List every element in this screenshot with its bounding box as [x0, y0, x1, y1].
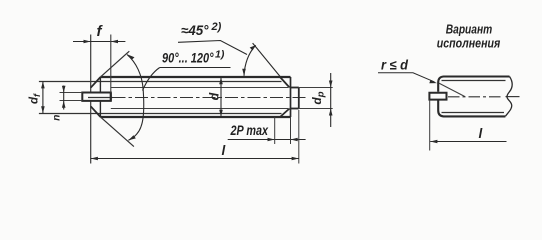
45deg shelf [178, 41, 247, 55]
variant l extension [429, 100, 431, 151]
flat point cylinder bottom [291, 108, 299, 110]
90-120 shelf [160, 67, 231, 69]
variant view body outline [438, 77, 509, 117]
outline OD bottom [100, 116, 290, 118]
d_p extension bottom [299, 108, 333, 110]
svg-text:исполнения: исполнения [437, 36, 501, 50]
90-120 angle arc [127, 55, 144, 141]
right end chamfer thick top [280, 77, 290, 88]
right end body vertical [290, 77, 292, 117]
break line [505, 77, 512, 117]
l dimension line [91, 158, 299, 160]
svg-text:90°... 120°: 90°... 120° [162, 51, 214, 66]
thread minor line top (also d_f extension) [39, 81, 282, 83]
svg-text:n: n [52, 115, 63, 121]
90-120 arc arrows [127, 54, 135, 60]
d_p arrows [329, 81, 333, 88]
n arrows [62, 86, 66, 93]
slot end vertical [110, 93, 112, 101]
d_f dimension line [42, 81, 44, 113]
svg-text:r ≤ d: r ≤ d [381, 58, 409, 73]
chamfer vertical upper [99, 77, 101, 92]
left face line (also f and l extension line) [90, 35, 92, 93]
flat point cylinder top [291, 87, 299, 89]
d_f arrows [41, 81, 45, 88]
45 arc arrows [250, 45, 256, 50]
45deg chamfer ray [253, 43, 281, 77]
r leader shelf [378, 73, 435, 82]
d_p dimension line [330, 73, 332, 127]
axis centerline [88, 97, 113, 99]
right end chamfer thick bottom [280, 109, 290, 118]
svg-text:2): 2) [211, 21, 222, 33]
2P extension left [274, 117, 276, 144]
r leader arrow [429, 80, 437, 83]
slot floor edge top [111, 87, 288, 89]
f extension right [110, 35, 112, 93]
chamfer edge thick bottom-left [91, 106, 101, 117]
d arrows [219, 77, 223, 84]
d dimension line [220, 77, 222, 116]
n dimension line [63, 86, 65, 110]
chamfer cone ray extension top-left [100, 51, 129, 77]
chamfer cone ray extension bottom-left [100, 117, 133, 147]
svg-text:1): 1) [215, 49, 225, 61]
f arrows [84, 40, 91, 44]
svg-text:l: l [222, 143, 226, 158]
variant slot floor sloped edge [439, 83, 465, 97]
n extension lines [60, 92, 83, 94]
variant axis centerline [448, 96, 503, 98]
axis through break [506, 96, 520, 98]
chamfer edge thick top-left [91, 77, 101, 88]
variant l dimension line [430, 141, 506, 143]
90-120 leader curve [143, 68, 160, 91]
45deg angle arc [244, 45, 256, 76]
slot outline [82, 93, 111, 101]
slot floor edge bottom [111, 108, 288, 110]
outline OD top [100, 76, 290, 78]
svg-text:l: l [479, 126, 483, 141]
variant thread line bottom [442, 112, 505, 114]
thread minor line bottom (also d_f extension) [39, 113, 282, 115]
d_p extension top [299, 87, 333, 89]
flat point end face [298, 88, 300, 109]
svg-text:2P max: 2P max [230, 123, 269, 138]
variant l arrow [430, 140, 437, 144]
l arrows [91, 157, 98, 161]
variant slot outline [429, 93, 446, 100]
2P arrows [268, 138, 275, 142]
f dimension line [73, 41, 125, 43]
chamfer vertical lower [99, 101, 101, 117]
svg-text:≈45°: ≈45° [181, 23, 209, 38]
svg-text:Вариант: Вариант [446, 23, 493, 37]
svg-text:d: d [207, 92, 221, 100]
variant thread line top [442, 80, 506, 82]
l extension right [298, 110, 300, 164]
2P extension right / end face extension [290, 117, 292, 144]
arrowheads [41, 40, 437, 161]
2P max dimension line [228, 139, 306, 141]
